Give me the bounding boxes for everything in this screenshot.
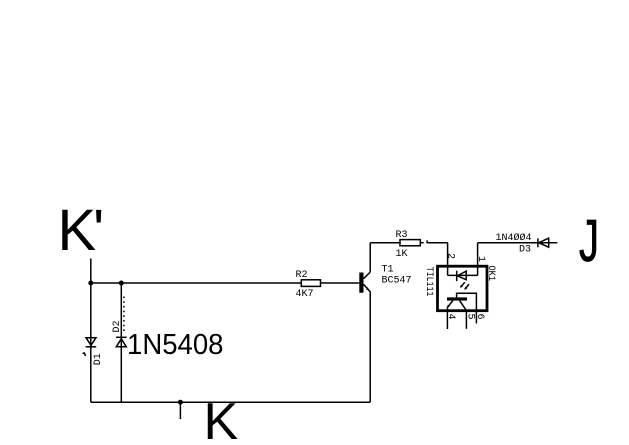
emission arrow 1 xyxy=(460,282,465,288)
svg-text:D2: D2 xyxy=(112,321,123,333)
svg-text:D3: D3 xyxy=(519,245,531,256)
dashed net highlight line xyxy=(123,297,125,332)
svg-text:2: 2 xyxy=(445,253,456,259)
transistor T1 xyxy=(359,272,370,293)
svg-text:J: J xyxy=(579,208,599,274)
svg-text:D1: D1 xyxy=(93,353,104,365)
wire K stub xyxy=(179,402,181,419)
diode D2 xyxy=(116,337,127,347)
diode D3 xyxy=(538,238,549,247)
phototransistor collector diagonal xyxy=(460,301,467,311)
wire bottom horizontal xyxy=(91,401,370,403)
pin 1 wire xyxy=(477,243,479,276)
svg-text:K: K xyxy=(204,393,239,445)
svg-text:1N5408: 1N5408 xyxy=(127,329,224,361)
wire tick to pin2 corner xyxy=(427,242,448,244)
svg-text:BC547: BC547 xyxy=(382,275,412,286)
pin 5 wire xyxy=(465,311,467,329)
wire emitter vertical xyxy=(369,292,371,402)
wire R2 to T1 base xyxy=(321,282,360,284)
wire stub tick xyxy=(426,240,428,243)
phototransistor base bar xyxy=(447,297,467,300)
junction dot D2 top xyxy=(119,281,124,286)
svg-text:R3: R3 xyxy=(396,230,408,241)
pin 2 wire xyxy=(447,243,449,276)
diode D1 xyxy=(86,338,97,347)
svg-text:T1: T1 xyxy=(382,265,394,276)
junction dot K stub xyxy=(178,400,183,405)
optocoupler OK1 box xyxy=(438,266,488,311)
wire R3 right stub xyxy=(420,242,423,244)
svg-text:R2: R2 xyxy=(296,270,308,281)
phototransistor emitter xyxy=(447,301,453,308)
stray tick mark xyxy=(83,353,86,356)
wire D2 branch xyxy=(120,283,122,402)
pin 6 wire xyxy=(475,311,477,324)
svg-text:1K: 1K xyxy=(396,249,408,260)
svg-text:1N4ØØ4: 1N4ØØ4 xyxy=(496,232,532,244)
wire collector vertical xyxy=(369,243,371,272)
svg-text:4: 4 xyxy=(445,314,456,320)
resistor R2 xyxy=(301,280,320,287)
wire collector to R3 xyxy=(370,242,400,244)
wire pin1 to D3 xyxy=(478,242,558,244)
svg-text:TIL111: TIL111 xyxy=(423,267,434,297)
resistor R3 xyxy=(400,240,420,246)
emission arrow 2 xyxy=(464,284,469,290)
svg-text:5: 5 xyxy=(464,314,475,320)
wire D1 branch xyxy=(90,283,92,402)
svg-text:1: 1 xyxy=(475,256,486,262)
wire main horizontal to R2 xyxy=(91,282,301,284)
svg-text:OK1: OK1 xyxy=(485,266,496,282)
svg-text:K': K' xyxy=(58,198,103,263)
svg-text:4K7: 4K7 xyxy=(296,289,314,300)
junction dot left xyxy=(88,281,93,286)
svg-text:6: 6 xyxy=(474,314,485,320)
phototransistor collector path to pin 6 xyxy=(457,293,477,310)
pin 4 wire xyxy=(446,308,448,330)
LED inside OK1 xyxy=(448,271,478,281)
wire K' stub xyxy=(90,259,92,284)
